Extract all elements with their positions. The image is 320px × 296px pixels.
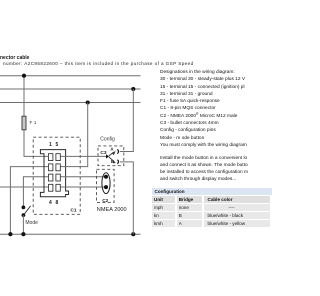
table row mph bbox=[152, 204, 272, 211]
svg-text:4: 4 bbox=[49, 200, 52, 206]
svg-text:C3: C3 bbox=[100, 150, 106, 156]
svg-text:1: 1 bbox=[49, 142, 52, 148]
svg-text:B: B bbox=[111, 159, 114, 164]
wire B to ground bus bbox=[120, 162, 134, 234]
dashed box C1 bbox=[33, 137, 80, 214]
pin 7 bbox=[56, 174, 60, 181]
svg-text:Mode: Mode bbox=[25, 220, 38, 226]
fuse F1 bbox=[22, 116, 26, 130]
svg-text:Config: Config bbox=[100, 137, 115, 143]
table column header row bbox=[152, 196, 272, 203]
pin 2 bbox=[49, 164, 53, 171]
junction dot bus / config B wire bbox=[131, 232, 135, 236]
junction dot bus / mode wire bbox=[21, 232, 25, 236]
table header: Configuration bbox=[152, 188, 272, 195]
mode switch lower contact bbox=[22, 213, 26, 217]
connector C1 body bbox=[40, 150, 68, 197]
mode switch lever bbox=[24, 206, 30, 214]
pin 4 bbox=[49, 184, 53, 191]
junction dot terminal 30 / fuse bbox=[22, 74, 26, 78]
junction dot terminal 31 / pin6 bbox=[86, 100, 90, 104]
pin 8 bbox=[56, 184, 60, 191]
right column text block bbox=[160, 69, 247, 149]
table row kmh bbox=[152, 220, 272, 227]
wire pin8 to NMEA bottom bbox=[60, 186, 106, 188]
svg-text:8: 8 bbox=[56, 200, 59, 206]
junction dot bus / pin2 wire bbox=[8, 232, 12, 236]
bridge link to A bbox=[109, 152, 114, 156]
wire pin6 to terminal 31 bbox=[60, 103, 87, 167]
subtitle: part number line bbox=[3, 61, 194, 66]
bridge link to B bbox=[109, 157, 114, 161]
mode switch upper contact bbox=[22, 206, 26, 210]
junction dot terminal 15 / config A bbox=[131, 87, 135, 91]
wire terminal 30 bus bbox=[0, 75, 141, 77]
title: connector cable (cropped left) bbox=[0, 55, 29, 61]
pin 6 bbox=[56, 164, 60, 171]
bridge link A arrowhead bbox=[112, 150, 116, 155]
NMEA pin top bbox=[104, 175, 108, 179]
wire ground bottom bus bbox=[0, 233, 141, 235]
pin 5 bbox=[56, 154, 60, 161]
wire from terminal 30 to fuse F1 bbox=[23, 76, 25, 116]
bridge link B arrowhead bbox=[112, 159, 116, 163]
NMEA pin bottom bbox=[104, 185, 108, 189]
wire A to terminal 15 bbox=[120, 89, 134, 152]
svg-text:C1: C1 bbox=[70, 207, 76, 213]
dashed box C2 bbox=[97, 169, 115, 202]
wire pin7 to NMEA top bbox=[60, 176, 106, 178]
configuration table bbox=[152, 188, 272, 227]
C3 common arrowhead bbox=[106, 154, 109, 158]
pin 3 bbox=[49, 174, 53, 181]
NMEA connector oval bbox=[102, 173, 110, 194]
wire pin3 to mode switch bbox=[23, 177, 48, 208]
wire pin2 to ground bus bbox=[10, 167, 48, 235]
dashed box Config bbox=[98, 146, 124, 166]
wire pin5 to C3 common bbox=[60, 155, 106, 157]
wire fuse to pin1 bbox=[24, 130, 48, 156]
svg-text:C2: C2 bbox=[102, 198, 108, 204]
svg-text:F 1: F 1 bbox=[30, 120, 37, 126]
pin 1 bbox=[49, 154, 53, 161]
paragraph: install mode button bbox=[160, 155, 248, 183]
wire terminal 31 bus bbox=[0, 102, 141, 104]
contact arc A bbox=[117, 149, 118, 153]
svg-text:A: A bbox=[110, 147, 114, 152]
contact arc B bbox=[117, 160, 118, 164]
wire terminal 15 bus bbox=[0, 88, 141, 90]
svg-text:5: 5 bbox=[56, 142, 59, 148]
wire mode switch to bus bbox=[22, 215, 24, 234]
svg-text:NMEA 2000: NMEA 2000 bbox=[97, 207, 127, 213]
table row kn bbox=[152, 212, 272, 219]
wire pin4 from left edge bbox=[0, 186, 48, 188]
